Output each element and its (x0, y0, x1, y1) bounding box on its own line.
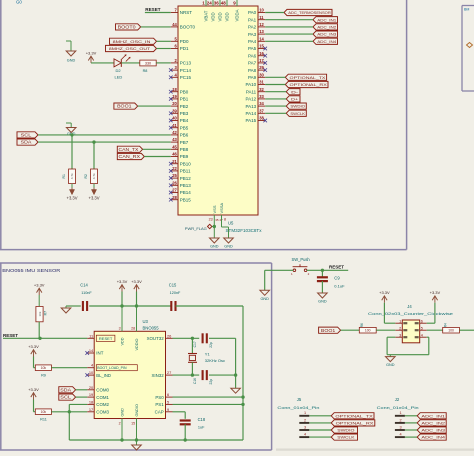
svg-text:4.7k: 4.7k (70, 173, 74, 179)
U5 pin 23 VSS (209, 205, 223, 238)
global label OPTIONAL_RX (285, 81, 328, 87)
U5 pin 15 PA5 (248, 44, 267, 52)
svg-text:1: 1 (304, 411, 306, 415)
svg-text:SW_Push: SW_Push (292, 257, 311, 262)
wire C15 to corner (176, 306, 244, 440)
svg-text:28: 28 (172, 195, 177, 200)
wire C17 to gnd stem (209, 337, 236, 339)
svg-text:BNO055: BNO055 (143, 325, 160, 330)
svg-text:28: 28 (131, 327, 135, 331)
wire +3.3V down to R9 (33, 357, 35, 368)
svg-text:16: 16 (259, 51, 264, 56)
J4 pin 5 (415, 326, 427, 331)
svg-text:6: 6 (167, 392, 169, 397)
junction RESET/R7 (38, 337, 41, 340)
J2 pin 1 (395, 411, 417, 416)
wire PA13 to SWDIO (265, 105, 286, 107)
svg-text:G0: G0 (16, 0, 22, 5)
svg-text:COM1: COM1 (96, 395, 109, 400)
U3 pin 18 COM2 (87, 399, 109, 407)
U3 pin 17 COM3 (87, 407, 109, 415)
global label SCL (17, 132, 38, 138)
svg-text:PA5: PA5 (248, 46, 257, 51)
svg-text:13: 13 (259, 29, 264, 34)
svg-text:+3.3V: +3.3V (89, 196, 100, 201)
svg-text:8MHZ_OSC_OUT: 8MHZ_OSC_OUT (109, 46, 151, 51)
U3 pin 27 XIN32 (151, 370, 172, 378)
wire R2 stub (93, 142, 95, 169)
J2 pin 2 (395, 418, 417, 423)
svg-text:PB15: PB15 (180, 197, 192, 202)
U3 power pin 28 VDDIO (131, 306, 139, 351)
svg-text:OPTIONAL_TX: OPTIONAL_TX (335, 413, 373, 418)
svg-text:R2: R2 (84, 174, 88, 178)
svg-text:PB3: PB3 (180, 111, 189, 116)
svg-text:VDDA: VDDA (235, 9, 240, 21)
svg-text:PB13: PB13 (180, 183, 192, 188)
svg-text:9: 9 (167, 407, 169, 412)
svg-text:+3.3V: +3.3V (86, 50, 97, 55)
svg-text:30: 30 (259, 72, 264, 77)
junction PWR_FLAG/VSS (213, 225, 216, 228)
U5 pin 19 PB1 (169, 94, 189, 102)
power +3.3V above R7 (34, 283, 45, 307)
ground GND above SCL (66, 123, 76, 136)
svg-text:SCL: SCL (21, 132, 33, 137)
svg-text:PB4: PB4 (180, 118, 189, 123)
svg-text:23: 23 (209, 218, 213, 222)
wire R1 stub (71, 135, 73, 169)
svg-text:VBAT: VBAT (204, 10, 209, 21)
junction SDA/R2 (92, 140, 95, 143)
wire COM2 to ground rail (69, 404, 87, 440)
LED D2 (114, 55, 130, 80)
U5 pin 13 PA3 (248, 29, 265, 37)
U5 pin 22 PB11 (169, 166, 191, 174)
svg-text:D+: D+ (291, 96, 299, 101)
svg-text:PB12: PB12 (180, 176, 192, 181)
svg-text:C14: C14 (80, 283, 88, 288)
svg-text:U5: U5 (228, 221, 234, 226)
svg-text:CAN_TX: CAN_TX (119, 147, 139, 152)
svg-text:BM: BM (464, 8, 469, 12)
U5 pin 8 VSSA (219, 202, 229, 238)
svg-text:1: 1 (399, 319, 401, 323)
U3 pin 2 GND (119, 408, 125, 440)
global label ADC_IN4 (313, 38, 338, 44)
svg-text:SWDIO: SWDIO (337, 428, 354, 433)
svg-text:5: 5 (167, 399, 169, 404)
svg-text:GNDIO: GNDIO (135, 404, 139, 416)
svg-text:GND: GND (210, 245, 219, 249)
svg-text:43: 43 (172, 137, 177, 142)
wire CAP to C18 (173, 412, 186, 419)
svg-text:20: 20 (172, 101, 177, 106)
wire +3.3V to LED anode (91, 62, 114, 64)
svg-text:J2: J2 (395, 397, 400, 402)
global label CAN_TX (117, 146, 142, 152)
svg-text:RESET: RESET (3, 333, 18, 338)
wire R11 to COM3 (51, 411, 87, 413)
global label SWDIO (286, 103, 306, 109)
wire CAN_RX to PB9 (144, 156, 171, 158)
svg-text:VDDIO: VDDIO (135, 338, 139, 350)
wire J4 pin3-pin4 loop (387, 337, 429, 355)
svg-text:4: 4 (400, 433, 402, 437)
U5 pin 16 PA6 (248, 51, 267, 59)
U5 pin 41 PB5 (169, 123, 189, 131)
junction C9 (321, 269, 324, 272)
svg-text:BOOT_LOAD_PIN: BOOT_LOAD_PIN (97, 366, 127, 370)
U5 pin 44 BOOT0 (171, 22, 196, 30)
junction crystal gnd (234, 373, 237, 376)
junction PS1 rail (241, 403, 244, 406)
svg-text:11: 11 (259, 15, 264, 20)
svg-text:Conn_02x03_Counter_Clockwise: Conn_02x03_Counter_Clockwise (368, 311, 453, 316)
svg-text:34: 34 (259, 101, 264, 106)
U5 pin 40 PB4 (169, 116, 189, 124)
svg-text:3: 3 (119, 327, 121, 331)
svg-text:CAN_RX: CAN_RX (119, 154, 141, 159)
wire PA4 to ADC_IN4 (265, 40, 313, 42)
global label ADC_IN4 (J2) (417, 434, 446, 440)
global label ADC_IN3 (J2) (417, 427, 446, 433)
ground GND J4 (386, 355, 396, 367)
resistor R8 330 (140, 60, 156, 66)
svg-text:4.7k: 4.7k (92, 173, 96, 179)
svg-text:STM32F103C8Tx: STM32F103C8Tx (226, 228, 263, 233)
svg-text:R1: R1 (62, 174, 66, 178)
svg-text:26: 26 (167, 333, 171, 338)
svg-text:38: 38 (259, 116, 264, 121)
wire 8MHZ_OSC_IN to PD0 (157, 40, 171, 42)
svg-text:8: 8 (224, 218, 226, 222)
svg-text:R8: R8 (143, 69, 148, 73)
U5 power pin 9 VDDA (233, 0, 239, 22)
U5 pin 10 PA0 (248, 8, 265, 16)
power +3.3V for R11 (28, 387, 39, 400)
junction COM3 / ground drop (68, 410, 71, 413)
svg-text:18: 18 (172, 87, 177, 92)
svg-text:+3.3V: +3.3V (117, 279, 128, 284)
svg-text:C16: C16 (193, 378, 197, 384)
sheet box top-right fragment (462, 6, 474, 92)
power +3.3V for R9 (28, 344, 39, 357)
U3 pin 26 XOUT32 (147, 333, 173, 341)
global label CAN_RX (117, 153, 144, 159)
svg-text:GND: GND (260, 297, 269, 301)
svg-text:10: 10 (259, 8, 264, 13)
resistor R4 100 (443, 327, 460, 333)
svg-text:46: 46 (172, 152, 177, 157)
svg-text:C18: C18 (198, 417, 206, 422)
svg-text:PA4: PA4 (248, 39, 257, 44)
svg-text:VSSA: VSSA (219, 202, 224, 213)
svg-text:INT: INT (96, 351, 103, 356)
U3 pin 20 COM0 (87, 385, 109, 393)
svg-text:PB9: PB9 (180, 154, 189, 159)
wire PS0 to rail (173, 396, 244, 398)
J4 pin 2 (395, 326, 407, 331)
svg-text:BOO1: BOO1 (321, 328, 336, 333)
resistor R2 4.7k (91, 169, 98, 184)
wire C14 to C15 (89, 305, 171, 307)
svg-text:R6: R6 (360, 323, 364, 327)
svg-text:PA15: PA15 (246, 118, 257, 123)
wire switch right RESET (307, 269, 348, 271)
U3 pin 6 PS0 (155, 392, 172, 400)
U3 pin 9 CAP (155, 407, 173, 415)
svg-text:ADC_IN2: ADC_IN2 (317, 24, 336, 29)
svg-text:+3.3V: +3.3V (28, 387, 39, 392)
svg-text:32: 32 (259, 87, 264, 92)
svg-text:ADC_IN4: ADC_IN4 (421, 435, 446, 440)
svg-text:C9: C9 (334, 276, 340, 281)
global label 8MHZ_OSC_IN (110, 38, 157, 44)
global label OPTIONAL_TX (285, 74, 326, 80)
junction C18 / rail (184, 438, 187, 441)
U5 pin 25 PB12 (169, 173, 191, 181)
U5 pin 21 PB10 (169, 159, 191, 167)
ground GND below GNDIO (132, 445, 142, 450)
svg-text:PS0: PS0 (155, 395, 164, 400)
U5 pin 11 PA1 (248, 15, 265, 23)
wire R4 to edge (459, 329, 474, 331)
global label BOOT0 (116, 24, 141, 30)
U5 pin 18 PB0 (169, 87, 189, 95)
svg-text:32KHz Osc: 32KHz Osc (205, 358, 225, 363)
global label BOO1 (PB2) (114, 103, 138, 109)
svg-text:+3.3V: +3.3V (28, 344, 39, 349)
U5 pin 29 PA8 (248, 65, 267, 73)
svg-text:BOO1: BOO1 (117, 104, 132, 109)
svg-text:U3: U3 (143, 319, 149, 324)
svg-text:29: 29 (259, 65, 264, 70)
svg-text:SDA: SDA (60, 387, 71, 392)
global label BOO1 (J4) (319, 327, 341, 333)
svg-text:Conn_01x04_Pin: Conn_01x04_Pin (377, 405, 419, 410)
J5 pin 3 (299, 425, 331, 430)
svg-text:SWCLK: SWCLK (337, 435, 355, 440)
U3 pin 11 RESET (87, 333, 115, 341)
U5 pin 39 PB3 (169, 108, 189, 116)
wire PA3 to ADC_IN3 (265, 33, 313, 35)
svg-text:+3.3V: +3.3V (379, 290, 390, 295)
svg-text:XIN32: XIN32 (151, 373, 164, 378)
svg-text:BOOT0: BOOT0 (118, 24, 137, 29)
wire SCL to COM1 (76, 396, 88, 398)
svg-text:PD0: PD0 (180, 39, 189, 44)
wire +3.3V down to R11 (34, 400, 36, 412)
U5 pin 17 PA7 (248, 58, 267, 66)
svg-text:31: 31 (259, 80, 264, 85)
global label ADC_IN2 (J2) (417, 420, 446, 426)
power +3.3V J4 pin1 (379, 290, 390, 303)
capacitor C18 1uF (180, 421, 191, 425)
wire +3.3V to J4 pin1 (384, 303, 395, 324)
capacitor C17 22p (203, 333, 207, 343)
svg-text:17: 17 (89, 407, 93, 412)
wire J4 pin5 to R4 (427, 329, 443, 331)
svg-text:24: 24 (207, 1, 213, 6)
wire PA10 to OPTIONAL_RX (265, 84, 285, 86)
svg-text:ADC_TERMOSENSOR: ADC_TERMOSENSOR (288, 10, 331, 15)
U5 pin 12 PA2 (248, 22, 265, 30)
J4 pin 3 (395, 333, 407, 338)
U5 pin 6 PD1 (171, 44, 189, 52)
wire C18 to ground rail (184, 424, 186, 440)
global label OPTIONAL_TX (J5) (331, 413, 374, 419)
svg-text:25: 25 (172, 173, 177, 178)
svg-text:+3.3V: +3.3V (131, 279, 142, 284)
J4 pin 1 (395, 319, 407, 324)
crystal Y1 32kHz (188, 338, 225, 375)
U3 pin 19 COM1 (87, 392, 109, 400)
svg-text:PA2: PA2 (248, 25, 257, 30)
svg-text:27: 27 (167, 370, 171, 375)
resistor R6 100 (359, 327, 376, 333)
J2 pin 3 (395, 425, 417, 430)
svg-text:100: 100 (448, 329, 454, 333)
svg-text:ADC_IN1: ADC_IN1 (317, 17, 336, 22)
global label ADC_IN3 (313, 31, 338, 37)
svg-text:10k: 10k (38, 311, 42, 316)
svg-text:COM0: COM0 (96, 388, 109, 393)
svg-text:120nF: 120nF (170, 291, 181, 295)
J4 pin 6 (415, 319, 427, 324)
svg-text:15: 15 (259, 44, 264, 49)
global label D+ (286, 96, 300, 102)
svg-text:PC14: PC14 (180, 68, 192, 73)
U5 pin 31 PA10 (246, 80, 266, 88)
svg-text:PB5: PB5 (180, 125, 189, 130)
PWR_FLAG label (185, 224, 215, 231)
J2 pin 4 (395, 433, 417, 438)
U5 pin 2 PC13 (171, 58, 192, 66)
svg-text:19: 19 (89, 392, 93, 397)
svg-text:PB0: PB0 (180, 89, 189, 94)
svg-text:33: 33 (259, 94, 264, 99)
svg-text:10k: 10k (41, 366, 47, 370)
svg-text:10k: 10k (41, 410, 47, 414)
wire BOO1 to PB2 (138, 105, 171, 107)
wire J4 pin6 to +3.3V (427, 303, 435, 324)
global label SWCLK (J5) (331, 434, 357, 440)
wire PS1 to rail (173, 403, 244, 405)
U5 power pin 48 VDD (221, 0, 230, 22)
svg-text:39: 39 (172, 108, 177, 113)
resistor R9 10k (35, 365, 51, 371)
global label 8MHZ_OSC_OUT (106, 45, 157, 51)
svg-text:C17: C17 (193, 341, 197, 347)
svg-text:SCL: SCL (60, 395, 72, 400)
global label SWDIO (J5) (331, 427, 357, 433)
ground GND below C9 (318, 293, 328, 304)
resistor R1 4.7k (69, 169, 76, 184)
svg-text:BL_IND: BL_IND (96, 373, 111, 378)
wire XOUT32 (173, 337, 200, 339)
svg-text:42: 42 (172, 130, 177, 135)
svg-text:36: 36 (214, 1, 220, 6)
svg-text:1uF: 1uF (198, 426, 205, 430)
svg-text:PA14: PA14 (246, 111, 257, 116)
svg-text:0.1uF: 0.1uF (334, 284, 345, 289)
U5 pin 33 PA12 (246, 94, 266, 102)
wire to R9 (34, 367, 36, 369)
svg-text:D2: D2 (115, 68, 121, 73)
svg-text:26: 26 (172, 180, 177, 185)
ground GND left of C14 (61, 306, 81, 313)
global label ADC_IN1 (313, 17, 338, 23)
junction XIN/crystal (191, 373, 194, 376)
J5 pin 2 (299, 418, 331, 423)
svg-text:OPTIONAL_RX: OPTIONAL_RX (336, 420, 374, 425)
svg-text:OPTIONAL_RX: OPTIONAL_RX (290, 82, 328, 87)
svg-text:BNO055 IMU SENSOR: BNO055 IMU SENSOR (2, 268, 61, 274)
svg-text:VDD: VDD (218, 12, 223, 21)
svg-text:C15: C15 (169, 283, 177, 288)
U5 pin 30 PA9 (248, 72, 265, 80)
wire 8MHZ_OSC_OUT to PD1 (157, 48, 171, 50)
svg-text:GND: GND (386, 363, 395, 367)
svg-text:PB8: PB8 (180, 147, 189, 152)
wire C16 to gnd stem (209, 374, 236, 376)
svg-text:GND: GND (120, 408, 124, 417)
svg-text:PC15: PC15 (180, 75, 192, 80)
svg-text:SDA: SDA (21, 140, 32, 145)
svg-text:17: 17 (259, 58, 264, 63)
svg-text:R4: R4 (443, 323, 447, 327)
svg-text:3: 3 (304, 425, 306, 429)
junction PS0 rail (241, 395, 244, 398)
svg-text:21: 21 (172, 159, 177, 164)
svg-text:4: 4 (421, 333, 423, 337)
U5 pin 34 PA13 (246, 101, 266, 109)
separator line bottom-right (276, 449, 474, 451)
U3 pin 10 BL_IND (85, 370, 111, 378)
global label SCL (BNO) (59, 394, 76, 400)
resistor R11 10k (35, 409, 51, 415)
svg-text:48: 48 (221, 1, 227, 6)
svg-text:22p: 22p (209, 342, 213, 348)
U5 pin 5 PD0 (171, 36, 189, 44)
U3 pin 5 PS1 (155, 399, 172, 407)
svg-text:PA3: PA3 (248, 32, 257, 37)
svg-text:LED: LED (115, 75, 123, 80)
svg-text:J4: J4 (407, 304, 412, 309)
svg-text:Y1: Y1 (205, 352, 211, 357)
U5 pin 38 PA15 (246, 116, 267, 124)
wire PA9 to OPTIONAL_TX (265, 76, 285, 78)
svg-text:11: 11 (89, 333, 93, 338)
capacitor C15 120nF (171, 301, 175, 311)
svg-text:PA10: PA10 (246, 82, 257, 87)
IMU U3 body (94, 331, 165, 418)
svg-text:D-: D- (291, 89, 299, 94)
svg-text:PA8: PA8 (248, 68, 257, 73)
U5 pin 32 PA11 (246, 87, 265, 95)
svg-text:PS1: PS1 (155, 402, 164, 407)
svg-text:12: 12 (259, 22, 264, 27)
global label ADC_IN2 (313, 24, 338, 30)
resistor R7 10k (36, 307, 43, 322)
svg-text:330: 330 (145, 61, 151, 65)
wire R6 to J4 pin2 (376, 329, 395, 331)
junction VDD rail (120, 304, 123, 307)
power +3.3V J4 pin6 (430, 290, 441, 303)
svg-text:XOUT32: XOUT32 (147, 336, 165, 341)
U3 pin 15 GNDIO (131, 404, 139, 445)
